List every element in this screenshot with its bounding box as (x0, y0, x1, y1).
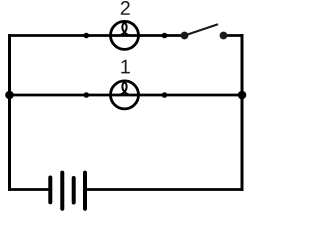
switch S lever (185, 24, 219, 35)
wire: left vertical (8, 34, 11, 191)
battery GB plate 2 (positive, long) (60, 173, 64, 209)
node: left junction (5, 91, 14, 100)
wire: bottom left segment (8, 188, 50, 191)
node: top branch right terminal dot (162, 33, 168, 39)
wire: top branch right segment (224, 34, 244, 37)
node: right junction (238, 91, 247, 100)
node: top branch left terminal dot (84, 33, 90, 39)
node: middle branch left terminal dot (84, 92, 90, 98)
node: middle branch right terminal dot (162, 92, 168, 98)
switch S (open) pivot dot (181, 32, 189, 40)
lamp 2 circle (111, 21, 139, 49)
lamp 1 circle (111, 81, 139, 109)
battery GB plate 4 (positive, long) (83, 173, 87, 209)
battery GB plate 1 (negative, short) (48, 178, 52, 203)
battery GB plate 3 (negative, short) (72, 178, 76, 203)
wire: middle branch (8, 94, 244, 97)
wire: bottom right segment (85, 188, 244, 191)
lamp 2 filament loop (117, 23, 131, 36)
switch S contact dot (220, 32, 228, 40)
label 1 (lamp 1) (121, 60, 129, 74)
wire: top branch left segment (8, 34, 185, 37)
wire: right vertical (241, 34, 244, 191)
label 2 (lamp 2) (121, 1, 130, 15)
lamp 1 filament loop (117, 83, 131, 96)
